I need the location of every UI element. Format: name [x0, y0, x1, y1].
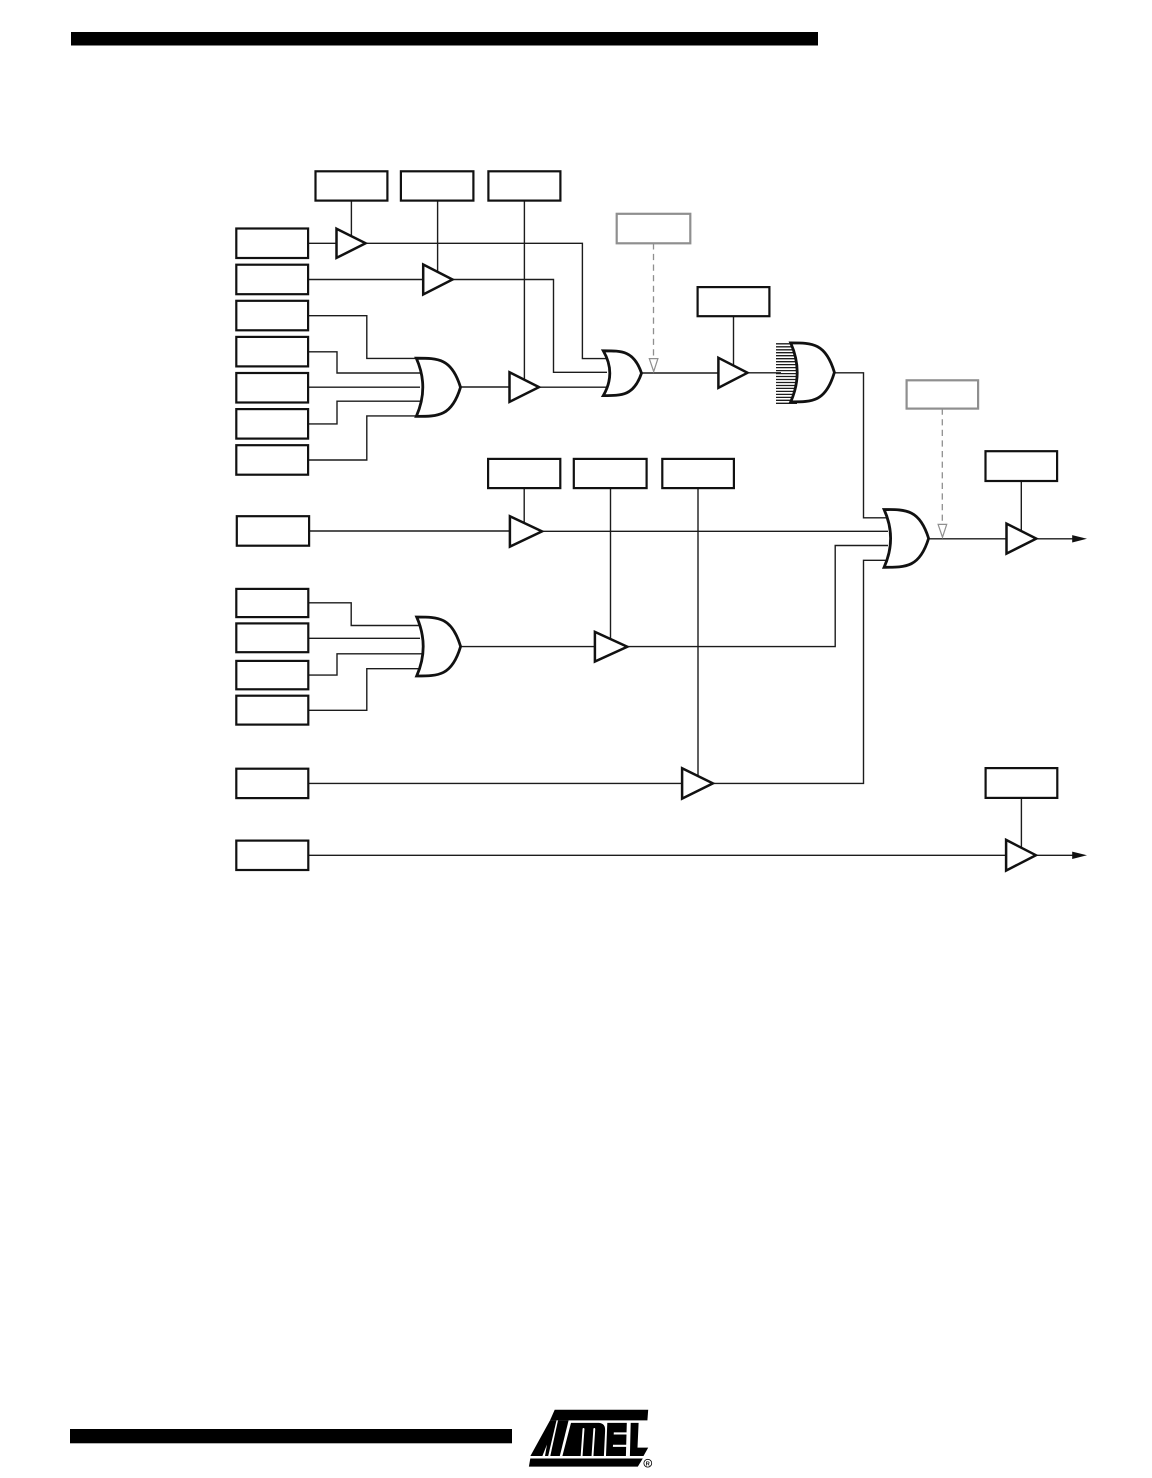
svg-text:R: R	[646, 1461, 650, 1467]
